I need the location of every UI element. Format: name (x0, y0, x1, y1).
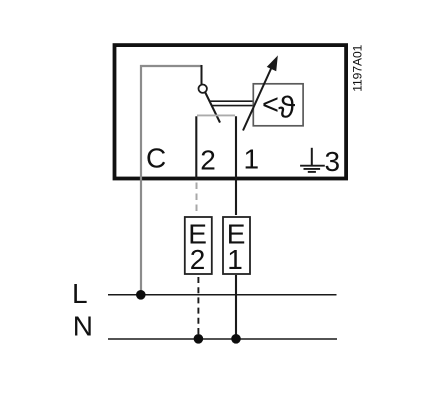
supply line L (108, 294, 337, 296)
wire stub to switch pivot (201, 65, 203, 84)
junction dot E1-N (231, 334, 241, 344)
supply line N (108, 338, 337, 340)
switch pivot circle (199, 85, 207, 93)
svg-text:1: 1 (227, 244, 243, 275)
svg-text:N: N (73, 310, 93, 341)
label L (72, 278, 88, 309)
ground symbol terminal 3 (300, 148, 325, 172)
wire C (common) gray (141, 66, 202, 295)
junction dot E2-N (194, 334, 204, 344)
terminal label 1 (244, 144, 260, 175)
wire terminal 2 inside box (195, 116, 197, 180)
wire E1 to N (235, 275, 237, 339)
linkage double line to sensor (210, 101, 253, 105)
dashed wire from terminal 2 to E2 (196, 183, 198, 215)
svg-text:3: 3 (325, 146, 341, 177)
load E1 box (223, 217, 250, 274)
thermostat unit enclosure box (115, 45, 347, 178)
contact guide bar (gray) (197, 114, 235, 116)
label N (73, 310, 93, 341)
label 1197A01 (351, 44, 365, 91)
temperature sensor box (253, 84, 303, 126)
svg-text:<: < (262, 89, 279, 121)
load E2 text (188, 219, 207, 275)
terminal label 3 (325, 146, 341, 177)
dashed wire E2 to N (197, 277, 199, 338)
svg-text:1197A01: 1197A01 (351, 44, 365, 91)
load E1 text (227, 219, 246, 275)
svg-text:2: 2 (190, 244, 206, 275)
svg-text:1: 1 (244, 144, 260, 175)
svg-text:ϑ: ϑ (278, 90, 295, 125)
load E2 box (185, 217, 212, 274)
svg-text:2: 2 (200, 145, 216, 176)
terminal label C (146, 143, 166, 174)
sensor label <theta (262, 89, 295, 124)
switch blade (205, 92, 220, 122)
wire terminal 1 down to E1 (235, 116, 237, 215)
terminal label 2 (200, 145, 216, 176)
svg-text:L: L (72, 278, 88, 309)
adjustment arrow (243, 57, 277, 131)
svg-text:C: C (146, 143, 166, 174)
junction dot C-L (136, 290, 146, 300)
